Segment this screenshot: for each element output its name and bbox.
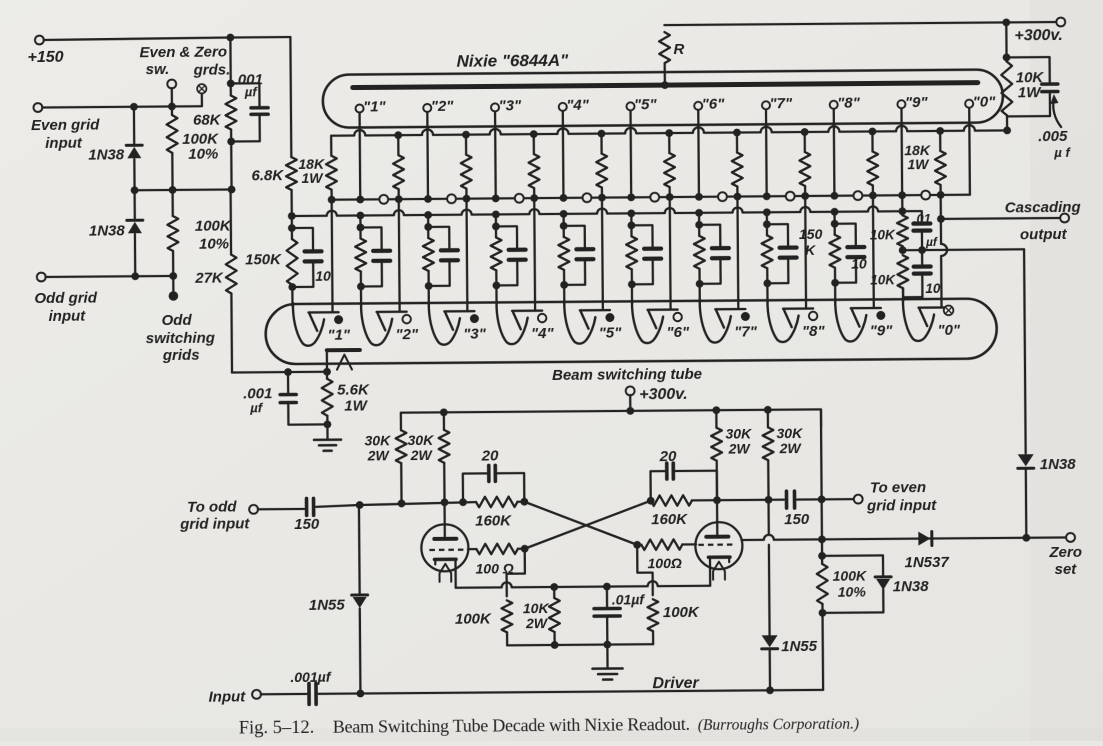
triode right cathode — [708, 555, 729, 559]
wire right rail column — [820, 409, 823, 499]
svg-text:100K: 100K — [455, 610, 492, 627]
svg-text:"6": "6" — [702, 96, 726, 113]
svg-text:Cascading: Cascading — [1005, 199, 1081, 217]
svg-text:µf: µf — [244, 84, 259, 99]
beam tube spade electrode "6" — [632, 300, 678, 343]
beam tube spade electrode "8" — [767, 299, 813, 342]
resistor 160K left — [476, 497, 518, 508]
resistor 10K lower right — [897, 255, 908, 288]
svg-text:+150: +150 — [27, 49, 63, 66]
svg-text:Driver: Driver — [652, 675, 699, 692]
svg-text:100Ω: 100Ω — [647, 555, 681, 571]
svg-text:1W: 1W — [1018, 84, 1042, 101]
wire anode column cell 4 down to spade — [601, 198, 604, 310]
node Zero set terminal — [1066, 533, 1075, 542]
beam tube spade electrode "2" — [361, 302, 407, 345]
svg-text:To odd: To odd — [187, 498, 237, 515]
svg-text:10: 10 — [315, 268, 331, 284]
wire anode column cell 5 down to spade — [669, 197, 672, 309]
svg-text:.001µf: .001µf — [290, 669, 331, 685]
resistor 18K 1W left — [330, 136, 332, 156]
capacitor .01 uf right — [902, 211, 921, 222]
svg-text:5.6K: 5.6K — [337, 381, 370, 398]
wire cathode resistor line y198 — [332, 195, 970, 200]
resistor-capacitor pair cell 8 — [833, 212, 835, 224]
node spade "5" odd grid dot — [605, 313, 614, 322]
wire +150 rail — [44, 37, 291, 40]
svg-text:"2": "2" — [395, 326, 419, 343]
svg-text:30K: 30K — [364, 432, 391, 448]
svg-text:100K: 100K — [663, 604, 700, 621]
svg-text:"9": "9" — [870, 322, 894, 339]
node open circle tap — [718, 192, 727, 201]
wire zero set line — [742, 532, 1067, 540]
wire odd grid input line — [46, 276, 174, 277]
svg-text:.005: .005 — [1038, 128, 1068, 145]
svg-text:sw.: sw. — [146, 61, 170, 78]
resistor-capacitor pair cell 5 — [630, 213, 632, 225]
resistor 27K — [229, 190, 232, 255]
svg-text:Beam Switching Tube Decade wit: Beam Switching Tube Decade with Nixie Re… — [333, 714, 690, 737]
svg-text:.01: .01 — [913, 211, 931, 226]
svg-text:10K: 10K — [870, 272, 896, 287]
svg-text:Even & Zero: Even & Zero — [139, 44, 227, 62]
wire anode column cell 8 down to spade — [872, 195, 875, 307]
wire nixie cathode 6 stem — [697, 110, 700, 197]
wire sw. stem — [171, 88, 173, 106]
triode left cathode — [434, 557, 455, 561]
wire cathode line driver — [454, 559, 457, 587]
svg-text:2W: 2W — [779, 440, 803, 456]
resistor 150K with capacitor 10 (leftmost pair) — [291, 216, 293, 228]
node nixie cathode terminal "6" — [694, 102, 702, 110]
beam tube spade electrode "9" — [835, 298, 881, 341]
svg-text:µf: µf — [925, 235, 938, 249]
wire grid column cell 7 to spade — [766, 283, 768, 302]
svg-text:1N38: 1N38 — [893, 578, 930, 595]
svg-text:1N55: 1N55 — [781, 638, 818, 655]
beam tube spade electrode "1" — [293, 303, 339, 346]
svg-text:"2": "2" — [431, 98, 455, 115]
resistor-capacitor pair cell 2 — [427, 215, 429, 227]
resistor 100K 10% lower — [171, 190, 174, 216]
svg-text:"4": "4" — [531, 325, 555, 342]
svg-text:2W: 2W — [525, 615, 549, 631]
node spade "8" even grid terminal — [809, 312, 817, 320]
wire cathode stem — [326, 352, 328, 372]
svg-text:Fig. 5–12.: Fig. 5–12. — [239, 718, 315, 739]
resistor anode cell 5 — [668, 133, 670, 153]
wire anode column cell 1 down to spade — [398, 199, 401, 311]
triode left heater — [439, 564, 451, 582]
svg-text:10K: 10K — [870, 227, 896, 242]
capacitor .001 uf input — [261, 693, 307, 696]
triode left grid — [429, 549, 466, 551]
wire input line — [319, 690, 824, 694]
resistor-capacitor pair cell 6 — [698, 213, 700, 225]
wire left plate line — [360, 502, 476, 505]
svg-text:"8": "8" — [837, 95, 861, 112]
wire cascading output line — [940, 217, 1060, 220]
beam tube cathode bar — [327, 348, 360, 352]
svg-text:20: 20 — [659, 448, 677, 465]
svg-text:µ f: µ f — [1053, 145, 1071, 160]
wire cross coupling diagonal B — [524, 501, 651, 549]
capacitor 20 left — [463, 473, 487, 502]
resistor 10K 1W top right — [1005, 22, 1008, 61]
svg-text:160K: 160K — [651, 511, 688, 528]
wire chain into spade 0 — [902, 288, 904, 301]
beam tube spade electrode "5" — [564, 301, 610, 344]
wire right plate line to even grid — [717, 499, 784, 502]
wire grid bias line y214 — [292, 206, 903, 216]
svg-text:"7": "7" — [769, 95, 793, 112]
svg-text:grds.: grds. — [193, 62, 231, 79]
svg-text:150K: 150K — [245, 251, 282, 268]
resistor 6.8K — [289, 37, 292, 157]
capacitor 150 left — [258, 508, 304, 511]
wire anode column cell 6 down to spade — [736, 197, 739, 309]
svg-text:1N38: 1N38 — [1040, 456, 1077, 473]
diode 1N55 right — [767, 500, 770, 535]
capacitor .001 uf top-left — [231, 83, 260, 106]
svg-text:"3": "3" — [463, 326, 487, 343]
svg-text:Odd grid: Odd grid — [34, 290, 97, 307]
node Cascading output terminal — [1060, 214, 1069, 223]
resistor 100K left driver — [501, 600, 512, 632]
diode 1N537 — [918, 532, 930, 546]
svg-text:"0": "0" — [973, 93, 997, 110]
svg-text:Input: Input — [208, 688, 246, 705]
diode 1N38 upper — [133, 107, 136, 144]
node nixie cathode terminal "7" — [762, 101, 770, 109]
svg-text:+300v.: +300v. — [639, 386, 688, 403]
resistor-capacitor pair cell 1 — [359, 215, 361, 227]
svg-text:2W: 2W — [728, 440, 752, 456]
node spade "7" odd grid dot — [741, 312, 750, 321]
wire nixie cathode 3 stem — [494, 111, 497, 198]
resistor anode cell 9 — [939, 131, 941, 151]
svg-text:Even grid: Even grid — [31, 117, 100, 135]
node open circle tap — [515, 194, 524, 203]
wire 100K bottom to input line — [821, 613, 824, 690]
wire 27K to cathode line — [232, 371, 327, 374]
wire nixie cathode 0 stem — [968, 108, 971, 195]
svg-text:"5": "5" — [634, 96, 658, 113]
nixie anode bar — [353, 83, 978, 88]
resistor anode cell 1 — [397, 135, 399, 155]
wire grid column cell 1 to spade — [360, 286, 362, 305]
arrow to .005 capacitor — [1053, 98, 1061, 127]
svg-text:"6": "6" — [666, 324, 690, 341]
node spade "9" odd grid dot — [876, 311, 885, 320]
wire 6.8K column into tube — [291, 287, 293, 306]
svg-text:1W: 1W — [301, 170, 324, 186]
node Odd switching grids terminal — [172, 276, 174, 293]
svg-text:µf: µf — [249, 400, 264, 415]
wire nixie cathode 8 stem — [833, 109, 836, 196]
wire grid column cell 6 to spade — [698, 284, 700, 303]
svg-text:10: 10 — [925, 281, 941, 296]
svg-text:+300v.: +300v. — [1014, 27, 1063, 44]
ground driver — [606, 645, 608, 668]
svg-text:10%: 10% — [188, 146, 218, 163]
capacitor .001 uf cathode — [287, 372, 289, 393]
node open circle tap — [786, 192, 795, 201]
svg-text:Beam switching tube: Beam switching tube — [552, 366, 702, 384]
resistor 100 ohm right — [633, 541, 641, 549]
svg-text:set: set — [1055, 561, 1078, 578]
capacitor 10 right — [921, 250, 923, 265]
wire anode column cell 7 down to spade — [804, 196, 807, 308]
resistor 5.6K 1W — [326, 372, 328, 379]
svg-text:150: 150 — [294, 516, 320, 533]
resistor R anode — [664, 24, 697, 27]
svg-text:"0": "0" — [937, 322, 961, 339]
svg-text:150: 150 — [784, 511, 810, 528]
svg-text:grid input: grid input — [866, 497, 937, 515]
resistor anode cell 3 — [533, 134, 535, 154]
wire grid column cell 8 to spade — [834, 283, 836, 302]
resistor 100 ohm left — [468, 548, 476, 550]
wire anode column cell 3 down to spade — [533, 198, 536, 310]
resistor 10K upper right — [901, 211, 903, 215]
node nixie cathode terminal "0" — [965, 100, 973, 108]
wire nixie cathode 2 stem — [426, 112, 429, 199]
svg-text:1N537: 1N537 — [904, 554, 949, 571]
node zero grids terminal grds. — [197, 84, 206, 93]
node spade "6" even grid terminal — [673, 313, 681, 321]
svg-text:To even: To even — [870, 479, 926, 496]
resistor 160K right — [647, 497, 655, 505]
node Odd grid input terminal — [37, 273, 46, 282]
wire grid column cell 2 to spade — [428, 286, 430, 305]
svg-text:10%: 10% — [838, 584, 867, 600]
svg-text:10%: 10% — [199, 236, 229, 253]
nixie tube 6844A envelope — [323, 69, 1003, 127]
diode 1N55 left — [358, 505, 361, 593]
resistor anode cell 4 — [600, 134, 602, 154]
node nixie cathode terminal "8" — [830, 101, 838, 109]
resistor anode cell 7 — [804, 132, 806, 152]
svg-text:27K: 27K — [194, 270, 224, 287]
resistor 100K right driver — [647, 599, 658, 631]
svg-text:R: R — [673, 41, 684, 58]
triode right heater — [713, 562, 725, 580]
wire terminal 9 column — [901, 195, 903, 211]
node spade "3" odd grid dot — [470, 314, 479, 323]
svg-text:Zero: Zero — [1048, 544, 1082, 561]
resistor 100K 10% right — [821, 556, 823, 564]
triode right grid — [698, 543, 735, 545]
node nixie cathode terminal "2" — [423, 104, 431, 112]
wire anode column cell 9 down to spade — [941, 195, 948, 308]
resistor 100K 10% upper — [171, 106, 173, 114]
wire anode bus under nixie — [331, 125, 1007, 136]
svg-text:30K: 30K — [725, 425, 752, 441]
triode left envelope — [421, 524, 468, 571]
node nixie cathode terminal "5" — [626, 102, 634, 110]
capacitor 150 right — [785, 491, 789, 508]
wire nixie cathode 9 stem — [900, 108, 903, 195]
svg-text:100K: 100K — [195, 218, 232, 235]
node spade "0" zero grid terminal — [944, 306, 954, 316]
svg-text:30K: 30K — [776, 425, 803, 441]
wire middle junction line — [135, 188, 232, 191]
svg-text:160K: 160K — [475, 512, 512, 529]
svg-text:20: 20 — [481, 447, 499, 464]
resistor-capacitor pair cell 3 — [495, 214, 497, 226]
capacitor .005 uf — [1007, 57, 1050, 83]
capacitor .01 uf driver — [606, 587, 608, 607]
node open circle tap — [583, 193, 592, 202]
triode right envelope — [695, 522, 742, 569]
svg-text:"9": "9" — [905, 94, 929, 111]
svg-text:150: 150 — [799, 226, 823, 242]
svg-text:1W: 1W — [907, 156, 930, 172]
beam tube spade electrode "0" — [903, 298, 949, 341]
node spade "1" odd grid dot — [334, 315, 343, 324]
node +300v terminal top — [1056, 18, 1065, 27]
wire nixie cathode 4 stem — [562, 111, 565, 198]
triode right plate — [716, 500, 719, 536]
wire grid column cell 3 to spade — [495, 285, 497, 304]
svg-text:input: input — [45, 135, 83, 152]
resistor 30K 2W third — [715, 410, 717, 427]
ground cathode — [326, 424, 328, 438]
beam switching tube envelope — [265, 298, 996, 364]
diode 1N38 lower — [133, 190, 136, 219]
svg-text:output: output — [1020, 226, 1068, 243]
svg-text:1W: 1W — [344, 397, 368, 414]
beam tube spade electrode "4" — [497, 301, 543, 344]
svg-text:2W: 2W — [367, 447, 391, 463]
svg-text:"8": "8" — [802, 323, 826, 340]
resistor 68K — [229, 38, 232, 96]
svg-text:68K: 68K — [193, 112, 222, 129]
beam tube spade electrode "7" — [700, 299, 746, 342]
svg-text:"1": "1" — [363, 98, 387, 115]
beam tube spade electrode "3" — [429, 302, 475, 345]
svg-text:1N38: 1N38 — [88, 146, 125, 163]
node nixie cathode terminal "9" — [897, 100, 905, 108]
node even switching grids terminal sw. — [167, 80, 176, 89]
svg-text:10: 10 — [851, 256, 867, 272]
diode 1N38 zero set — [1018, 454, 1034, 466]
node To even grid input terminal — [854, 495, 863, 504]
node spade "4" even grid terminal — [538, 314, 546, 322]
wire anode column cell 2 down to spade — [465, 199, 468, 311]
svg-text:"3": "3" — [498, 97, 522, 114]
resistor 10K 2W driver — [553, 587, 555, 598]
svg-text:"1": "1" — [327, 327, 351, 344]
wire +300 rail lower — [401, 409, 821, 430]
wire nixie cathode 7 stem — [765, 109, 768, 196]
svg-text:100K: 100K — [833, 568, 867, 584]
resistor 30K 2W second — [443, 412, 445, 429]
svg-text:1N55: 1N55 — [309, 597, 346, 614]
node Even grid input terminal — [33, 103, 42, 112]
node spade "2" even grid terminal — [402, 315, 410, 323]
svg-text:10K: 10K — [523, 600, 550, 616]
wire driver bottom line — [507, 644, 653, 645]
resistor 30K 2W fourth — [767, 410, 769, 427]
node open circle tap — [921, 191, 930, 200]
wire cross coupling diagonal A — [524, 501, 637, 546]
node open circle tap — [379, 195, 388, 204]
svg-text:Odd: Odd — [162, 312, 193, 329]
node open circle tap — [853, 191, 862, 200]
wire right grid jog down — [637, 545, 653, 596]
svg-text:"4": "4" — [566, 97, 590, 114]
svg-text:6.8K: 6.8K — [251, 167, 284, 184]
node To odd grid input terminal — [249, 505, 258, 514]
wire even grid input line — [42, 93, 202, 107]
svg-text:2W: 2W — [410, 447, 434, 463]
svg-text:1N38: 1N38 — [89, 222, 126, 239]
svg-text:(Burroughs Corporation.): (Burroughs Corporation.) — [698, 716, 859, 734]
node +150 terminal — [35, 36, 44, 45]
resistor anode cell 6 — [736, 133, 738, 153]
wire grid column cell 4 to spade — [563, 285, 565, 304]
wire right vertical to zero set — [1024, 249, 1026, 453]
node Input terminal — [252, 690, 261, 699]
capacitor 20 right — [650, 471, 665, 501]
wire junction line y253 right — [903, 248, 1024, 251]
wire nixie cathode 5 stem — [629, 110, 632, 197]
resistor 30K 2W first — [396, 430, 407, 463]
node open circle tap — [650, 193, 659, 202]
svg-text:switching: switching — [146, 330, 215, 348]
resistor anode cell 2 — [465, 135, 467, 155]
svg-text:"7": "7" — [734, 323, 758, 340]
svg-text:"5": "5" — [599, 324, 623, 341]
node nixie cathode terminal "1" — [356, 104, 364, 112]
svg-text:grid input: grid input — [179, 515, 250, 533]
diode 1N38 parallel — [822, 555, 883, 575]
wire left grid jog down — [506, 549, 525, 597]
wire +300 volt rail top — [697, 22, 1056, 25]
triode left plate — [443, 502, 446, 538]
node nixie cathode terminal "3" — [491, 103, 499, 111]
svg-text:Nixie "6844A": Nixie "6844A" — [456, 51, 569, 71]
svg-text:grids: grids — [162, 347, 200, 364]
node nixie cathode terminal "4" — [559, 103, 567, 111]
svg-text:.01µf: .01µf — [612, 591, 646, 607]
node +300v terminal lower — [626, 386, 635, 395]
resistor anode cell 8 — [871, 131, 873, 151]
wire nixie cathode 1 stem — [358, 112, 361, 199]
svg-text:K: K — [805, 242, 816, 258]
resistor-capacitor pair cell 4 — [562, 214, 564, 226]
wire grid column cell 5 to spade — [631, 284, 633, 303]
beam tube heater filament — [337, 355, 352, 370]
svg-text:input: input — [48, 308, 86, 325]
svg-text:30K: 30K — [407, 432, 434, 448]
node open circle tap — [447, 194, 456, 203]
resistor-capacitor pair cell 7 — [766, 212, 768, 224]
